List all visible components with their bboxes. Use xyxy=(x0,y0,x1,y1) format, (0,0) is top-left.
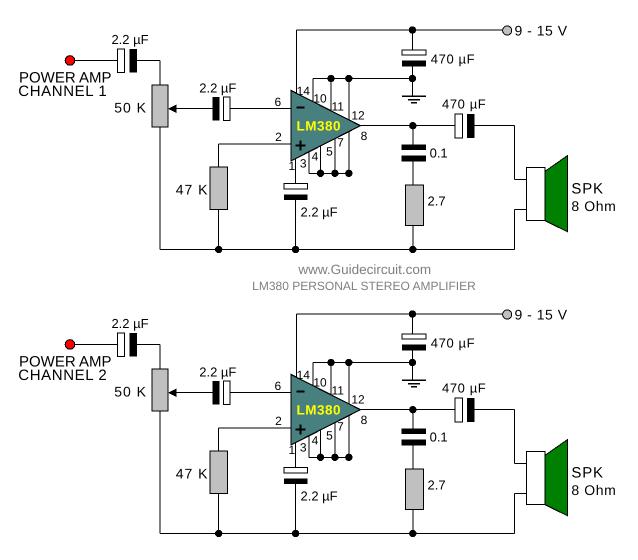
junction pin4 bus xyxy=(317,170,324,177)
svg-text:1: 1 xyxy=(289,159,296,173)
speaker SPK2 cone xyxy=(545,440,568,516)
wire pot R1b to ground bus xyxy=(159,411,161,534)
junction pin5 bus xyxy=(331,454,338,461)
junction R3b-bus xyxy=(409,530,416,537)
svg-text:4: 4 xyxy=(312,150,319,164)
wire R2a to ground bus xyxy=(218,210,220,250)
svg-text:7: 7 xyxy=(337,135,344,149)
wire pin 10 xyxy=(312,363,314,387)
capacitor C2a 2.2uF plate- xyxy=(213,97,220,121)
svg-text:8 Ohm: 8 Ohm xyxy=(571,198,616,214)
wire input to C1a xyxy=(74,60,117,62)
wire pin 3 xyxy=(308,435,310,457)
svg-text:3: 3 xyxy=(300,440,307,454)
wire ground pin bus top xyxy=(313,362,412,364)
svg-text:CHANNEL 2: CHANNEL 2 xyxy=(18,367,107,384)
wire pin 2 from R2a xyxy=(219,143,291,145)
wire pin 5 xyxy=(334,421,336,457)
potentiometer R1a wiper arrow xyxy=(168,104,177,113)
svg-text:6: 6 xyxy=(274,379,281,393)
wire wiper to C2b xyxy=(177,392,213,394)
svg-text:7: 7 xyxy=(337,419,344,433)
wire pin 11 xyxy=(330,363,332,396)
capacitor C2b 2.2uF plate- xyxy=(213,381,220,405)
wire wiper to C2a xyxy=(177,108,213,110)
svg-text:50 K: 50 K xyxy=(114,100,147,116)
resistor R3b 2.7 xyxy=(405,469,423,510)
svg-text:0.1: 0.1 xyxy=(430,146,448,161)
wire R3a to ground bus xyxy=(412,226,414,250)
input terminal J2 (red) xyxy=(65,340,75,350)
wire V+ rail xyxy=(297,313,503,315)
speaker SPK1 cone xyxy=(545,156,568,232)
svg-text:4: 4 xyxy=(312,434,319,448)
wire C2a to pin 6 xyxy=(230,108,291,110)
wire C1b to pot R1b xyxy=(137,344,160,346)
input terminal J1 (red) xyxy=(65,56,75,66)
svg-text:50 K: 50 K xyxy=(114,384,147,400)
junction R3a-bus xyxy=(409,246,416,253)
wire ground pin bus bottom xyxy=(309,172,349,174)
wire pin 11 xyxy=(330,79,332,112)
svg-text:14: 14 xyxy=(297,368,311,382)
svg-text:470 µF: 470 µF xyxy=(442,381,486,396)
wire ground bus xyxy=(160,533,515,535)
wire C5b to speaker xyxy=(474,409,514,411)
svg-text:LM380 PERSONAL STEREO AMPLIFIE: LM380 PERSONAL STEREO AMPLIFIER xyxy=(252,279,476,293)
wire C4a to ground symbol xyxy=(411,67,413,97)
svg-text:2.7: 2.7 xyxy=(428,478,446,493)
wire pin 3 xyxy=(308,151,310,173)
resistor R2b 47 K xyxy=(210,451,228,494)
wire output to C6b xyxy=(412,410,414,429)
svg-text:6: 6 xyxy=(274,95,281,109)
svg-text:2.2 µF: 2.2 µF xyxy=(111,316,148,331)
U2 non-inverting input mark xyxy=(296,429,306,431)
junction output-C6b xyxy=(409,406,416,413)
wire input to C1b xyxy=(74,344,117,346)
capacitor C3a 2.2uF plate- xyxy=(284,194,307,200)
svg-text:SPK: SPK xyxy=(571,180,603,197)
svg-text:www.Guidecircuit.com: www.Guidecircuit.com xyxy=(297,262,431,277)
wire output pin 8 xyxy=(360,125,454,127)
svg-text:8 Ohm: 8 Ohm xyxy=(571,482,616,498)
ground symbol xyxy=(402,95,426,97)
wire speaker SPK1 return xyxy=(515,209,527,211)
capacitor C4a 470uF plate- xyxy=(402,61,426,67)
wire C2b to pin 6 xyxy=(230,392,291,394)
wire C3a to ground bus xyxy=(295,200,297,249)
capacitor C4b 470uF plate- xyxy=(402,345,426,351)
wire rail cap C4a lead xyxy=(411,30,413,50)
wire pin 2 from R2b xyxy=(219,427,291,429)
wire pin 1 to C3a xyxy=(295,155,297,184)
svg-text:9 - 15 V: 9 - 15 V xyxy=(515,307,568,323)
wire ground pin bus top xyxy=(313,78,412,80)
svg-text:8: 8 xyxy=(361,129,368,143)
wire pin 4 xyxy=(320,429,322,457)
wire pin 10 xyxy=(312,79,314,103)
capacitor C6b 0.1 plate2 xyxy=(401,440,426,446)
wire C4b to ground symbol xyxy=(411,351,413,381)
supply terminal 9-15V xyxy=(503,26,512,35)
capacitor C3a 2.2uF plate+ xyxy=(284,184,307,189)
junction rail-C4b xyxy=(409,310,416,317)
capacitor C1a 2.2uF plate- xyxy=(130,49,138,73)
capacitor C3b 2.2uF plate+ xyxy=(284,468,307,473)
speaker SPK1 frame xyxy=(526,168,544,221)
capacitor C2b 2.2uF plate+ xyxy=(224,381,231,405)
svg-text:11: 11 xyxy=(331,100,344,114)
svg-text:8: 8 xyxy=(361,413,368,427)
ground symbol xyxy=(402,379,426,381)
capacitor C6a 0.1 plate2 xyxy=(401,156,426,162)
capacitor C6a 0.1 plate xyxy=(401,144,426,150)
wire C3b to ground bus xyxy=(295,484,297,533)
capacitor C4a 470uF plate+ xyxy=(402,50,426,55)
capacitor C3b 2.2uF plate- xyxy=(284,478,307,484)
U1 inverting input mark xyxy=(297,106,305,108)
capacitor C5b 470uF plate+ xyxy=(455,398,463,422)
wire speaker SPK2 return xyxy=(515,493,527,495)
junction pin7 bus xyxy=(345,170,352,177)
svg-text:11: 11 xyxy=(331,384,344,398)
svg-text:47 K: 47 K xyxy=(176,466,209,482)
svg-text:2.2 µF: 2.2 µF xyxy=(301,204,338,219)
junction pin11 bus xyxy=(327,75,334,82)
svg-text:SPK: SPK xyxy=(571,464,603,481)
svg-text:2: 2 xyxy=(275,414,282,428)
svg-text:2.2 µF: 2.2 µF xyxy=(199,364,236,379)
potentiometer R1a 50 K body xyxy=(152,85,168,127)
svg-text:LM380: LM380 xyxy=(297,402,342,417)
svg-text:2.7: 2.7 xyxy=(428,194,446,209)
svg-text:470 µF: 470 µF xyxy=(442,97,486,112)
junction pin12 bus xyxy=(345,75,352,82)
op-amp U1 LM380 xyxy=(291,91,360,161)
wire output pin 8 xyxy=(360,409,454,411)
junction output-C6a xyxy=(409,122,416,129)
supply terminal 9-15V xyxy=(503,310,512,319)
wire V+ rail xyxy=(297,29,503,31)
U1 non-inverting input mark xyxy=(296,145,306,147)
wire C1a to pot R1a xyxy=(137,60,160,62)
wire C6a to R3a xyxy=(412,161,414,185)
svg-text:12: 12 xyxy=(351,392,365,406)
junction C3b-bus xyxy=(292,530,299,537)
wire C6b to R3b xyxy=(412,445,414,469)
svg-text:47 K: 47 K xyxy=(176,182,209,198)
wire pot R1a to ground bus xyxy=(159,127,161,250)
junction pin4 bus xyxy=(317,454,324,461)
U2 inverting input mark xyxy=(297,390,305,392)
wire R2b to ground bus xyxy=(218,494,220,534)
svg-text:470 µF: 470 µF xyxy=(431,335,475,350)
svg-text:10: 10 xyxy=(313,375,327,389)
svg-text:10: 10 xyxy=(313,91,327,105)
svg-text:2.2 µF: 2.2 µF xyxy=(301,488,338,503)
capacitor C4b 470uF plate+ xyxy=(402,334,426,339)
capacitor C1a 2.2uF plate+ xyxy=(118,49,125,73)
wire R3b to ground bus xyxy=(412,510,414,534)
capacitor C1b 2.2uF plate- xyxy=(130,333,138,357)
speaker SPK2 frame xyxy=(526,452,544,505)
op-amp U2 LM380 xyxy=(291,375,360,445)
svg-text:1: 1 xyxy=(289,443,296,457)
junction pin11 bus xyxy=(327,359,334,366)
capacitor C2a 2.2uF plate+ xyxy=(224,97,231,121)
junction C3a-bus xyxy=(292,246,299,253)
svg-text:2.2 µF: 2.2 µF xyxy=(199,80,236,95)
junction R2a-bus xyxy=(215,246,222,253)
resistor R3a 2.7 xyxy=(405,185,423,226)
capacitor C1b 2.2uF plate+ xyxy=(118,333,125,357)
svg-text:0.1: 0.1 xyxy=(430,430,448,445)
svg-text:3: 3 xyxy=(300,156,307,170)
junction pin7 bus xyxy=(345,454,352,461)
junction bus-ground lead xyxy=(409,359,416,366)
wire pin 5 xyxy=(334,137,336,173)
svg-text:2.2 µF: 2.2 µF xyxy=(111,32,148,47)
svg-text:5: 5 xyxy=(326,144,333,158)
wire rail cap C4b lead xyxy=(411,314,413,334)
resistor R2a 47 K xyxy=(210,167,228,210)
junction pin5 bus xyxy=(331,170,338,177)
wire pin 1 to C3b xyxy=(295,439,297,468)
wire pin 4 xyxy=(320,145,322,173)
wire ground bus xyxy=(160,249,515,251)
wire output to C6a xyxy=(412,126,414,145)
capacitor C5a 470uF plate- xyxy=(467,114,474,138)
junction bus-ground lead xyxy=(409,75,416,82)
svg-text:CHANNEL 1: CHANNEL 1 xyxy=(18,83,107,100)
wire pin 12 pin 7 xyxy=(348,363,350,458)
svg-text:9 - 15 V: 9 - 15 V xyxy=(515,23,568,39)
wire ground pin bus bottom xyxy=(309,456,349,458)
capacitor C6b 0.1 plate xyxy=(401,428,426,434)
svg-text:14: 14 xyxy=(297,84,311,98)
junction rail-C4a xyxy=(409,26,416,33)
capacitor C5b 470uF plate- xyxy=(467,398,474,422)
svg-text:5: 5 xyxy=(326,428,333,442)
capacitor C5a 470uF plate+ xyxy=(455,114,463,138)
wire pin 14 to rail xyxy=(296,30,298,96)
svg-text:12: 12 xyxy=(351,108,365,122)
junction R2b-bus xyxy=(215,530,222,537)
svg-text:470 µF: 470 µF xyxy=(431,51,475,66)
wire pin 12 pin 7 xyxy=(348,79,350,174)
svg-text:LM380: LM380 xyxy=(297,118,342,133)
wire C5a to speaker xyxy=(474,125,514,127)
wire pin 14 to rail xyxy=(296,314,298,380)
potentiometer R1b wiper arrow xyxy=(168,388,177,397)
potentiometer R1b 50 K body xyxy=(152,369,168,411)
junction pin12 bus xyxy=(345,359,352,366)
svg-text:2: 2 xyxy=(275,130,282,144)
